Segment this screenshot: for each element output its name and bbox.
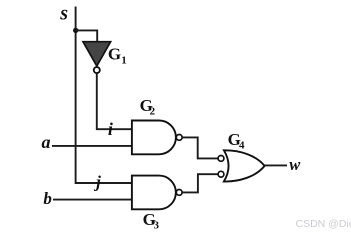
wire: input a to G2 bottom input xyxy=(52,145,132,147)
svg-text:1: 1 xyxy=(121,54,127,66)
wire: inverter output down to node i and G2 top input xyxy=(97,73,132,129)
wire: branch from junction to inverter G1 input xyxy=(76,30,98,41)
svg-text:CSDN @Die: CSDN @Die xyxy=(296,218,351,230)
svg-text:2: 2 xyxy=(150,105,156,117)
wire: G2 output jog to G4 top input xyxy=(182,137,218,158)
svg-text:s: s xyxy=(59,2,68,24)
wire: G4 output to w xyxy=(265,164,287,166)
svg-text:i: i xyxy=(108,119,113,139)
wire: s input trunk down and right to j input of G3 xyxy=(76,7,132,184)
inverter G1 (triangle, filled dark) xyxy=(83,42,111,66)
nand gate G2 output bubble xyxy=(176,135,182,141)
svg-text:4: 4 xyxy=(239,139,245,151)
inverter G1 output bubble xyxy=(94,67,100,73)
svg-text:w: w xyxy=(289,155,301,174)
svg-text:3: 3 xyxy=(154,219,160,231)
or gate G4 body xyxy=(224,150,265,181)
nand gate G3 body xyxy=(132,176,176,210)
wire: input b to G3 bottom input xyxy=(53,199,132,201)
nand gate G2 body xyxy=(132,121,176,155)
node: junction on s line feeding inverter G1 xyxy=(73,28,78,33)
nand gate G3 output bubble xyxy=(176,190,182,196)
svg-text:a: a xyxy=(42,132,51,152)
svg-text:b: b xyxy=(43,189,52,208)
wire: G3 output jog to G4 bottom input xyxy=(182,174,218,192)
svg-text:G: G xyxy=(108,44,121,63)
or gate G4 input bubble top xyxy=(218,156,224,162)
or gate G4 input bubble bottom xyxy=(218,171,224,177)
